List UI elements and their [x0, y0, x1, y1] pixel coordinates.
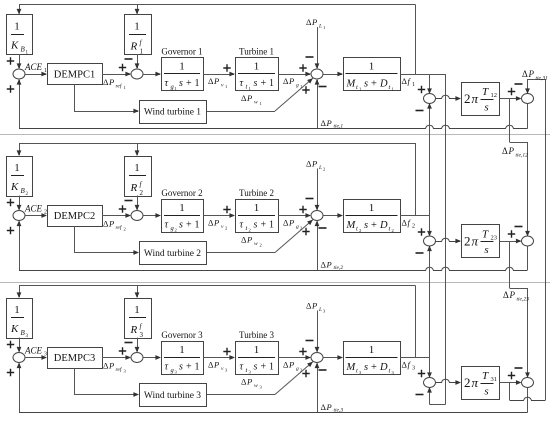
wire turbine to generator sum 3 — [278, 357, 310, 359]
sum junction generator 1 — [311, 69, 323, 79]
svg-text:D: D — [379, 79, 388, 90]
block wind turbine 2 — [140, 242, 207, 265]
wire tie-line feedback into ACE sum area 1 — [19, 80, 21, 129]
wire 2piT31/s output to tie sum — [500, 382, 521, 384]
svg-text:Turbine 3: Turbine 3 — [239, 330, 274, 340]
svg-text:t: t — [356, 226, 358, 233]
wire 1/K output into sum area 3 — [19, 338, 21, 352]
svg-text:+: + — [261, 78, 267, 89]
minus sign tie sum bottom 2 — [416, 252, 424, 254]
svg-text:P: P — [246, 377, 252, 387]
plus sign at ACE sum top input area 1 — [7, 57, 14, 64]
wire tie-line feedback line area 2 — [19, 267, 528, 270]
minus sign final sum top 1 — [515, 83, 523, 85]
svg-text:3: 3 — [124, 369, 127, 374]
sum junction before governor area 2 — [131, 211, 143, 221]
wire governor to turbine 2 — [203, 215, 234, 217]
svg-text:DEMPC3: DEMPC3 — [54, 353, 95, 364]
svg-text:1: 1 — [225, 84, 227, 89]
wire ACE sum to DEMPC2 — [25, 215, 46, 217]
block turbine 3 — [236, 342, 279, 375]
svg-text:DEMPC2: DEMPC2 — [54, 211, 95, 222]
svg-text:f: f — [408, 76, 412, 86]
wire top feedback line area 3 — [19, 285, 416, 287]
svg-text:K: K — [10, 323, 19, 335]
svg-text:R: R — [130, 41, 138, 53]
wire tie-line feedback into generator sum 1 — [317, 80, 319, 129]
svg-text:t: t — [389, 84, 391, 91]
svg-text:1: 1 — [175, 86, 177, 91]
block DEMPC1 — [48, 64, 103, 85]
svg-text:31: 31 — [491, 376, 498, 383]
svg-text:s: s — [254, 78, 258, 89]
svg-text:DEMPC1: DEMPC1 — [54, 70, 95, 81]
wire top feedback line area 1 — [19, 4, 416, 6]
block 2piT12/s — [462, 83, 500, 116]
wire tie-line feedback line area 1 — [19, 125, 528, 128]
svg-text:v: v — [221, 83, 224, 89]
block inertia 1/(M2s+D2) — [344, 200, 401, 233]
svg-text:τ: τ — [240, 78, 244, 89]
svg-text:Δ: Δ — [522, 69, 528, 79]
minus sign at load input 2 — [306, 198, 314, 200]
wire drop into 1/K block area 2 — [19, 143, 21, 155]
svg-text:1: 1 — [195, 220, 200, 231]
svg-text:2: 2 — [464, 234, 471, 249]
wire df into tie sum 3 top — [429, 358, 431, 378]
block turbine 2 — [236, 200, 279, 233]
wire drop into 1/R block area 2 — [137, 143, 139, 155]
plus sign at governor sum left input area 1 — [119, 64, 126, 71]
wire tie sum 2 to 2pi block — [436, 238, 461, 241]
plus sign at turbine input area 3 — [223, 348, 230, 355]
svg-text:3: 3 — [140, 331, 144, 339]
wire final sum 1 output down — [527, 104, 529, 129]
block turbine 1 — [236, 58, 279, 91]
wire dP_tie,12 branch to area 2 — [509, 99, 511, 143]
wire frequency feedback riser area 2 — [415, 143, 417, 216]
svg-text:2: 2 — [359, 228, 361, 233]
svg-text:1: 1 — [369, 61, 375, 73]
wire load disturbance dP_L2 into sum — [317, 169, 319, 210]
svg-text:1: 1 — [249, 86, 251, 91]
minus sign tie sum bottom 1 — [416, 110, 424, 112]
svg-text:+: + — [186, 78, 192, 89]
wire tie sum 3 to 2pi block — [436, 379, 461, 382]
plus sign at ACE sum bottom input area 3 — [7, 369, 14, 376]
plus sign generator sum left input 1 — [299, 64, 306, 71]
wire sum to governor 1 — [143, 74, 160, 76]
wire sum to governor 2 — [143, 215, 160, 217]
svg-text:tie,12: tie,12 — [516, 153, 529, 159]
minus sign at load input 1 — [306, 56, 314, 58]
svg-text:D: D — [379, 362, 388, 373]
wire df1 long column down to area 3 — [445, 74, 447, 405]
wire 1/R output into governor sum area 1 — [137, 54, 139, 68]
wire 2piT12/s output to tie sum — [500, 98, 521, 100]
wire 2piT23/s output to tie sum — [500, 241, 521, 243]
wire generator sum to inertia block 1 — [323, 74, 342, 76]
wire DEMPC2 to governor sum — [102, 215, 130, 217]
svg-text:K: K — [10, 181, 19, 193]
svg-text:1: 1 — [323, 25, 325, 30]
wire DEMPC2 branch to wind turbine — [74, 226, 76, 253]
svg-text:t: t — [356, 368, 358, 375]
wire 1/R output into governor sum area 2 — [137, 196, 139, 210]
svg-text:1: 1 — [269, 78, 274, 89]
wire wind turbine 2 output — [206, 252, 275, 254]
sum junction tie-line net 2 — [522, 236, 534, 246]
svg-text:t: t — [246, 367, 248, 374]
svg-text:2: 2 — [260, 243, 262, 248]
svg-text:+: + — [186, 220, 192, 231]
plus sign final sum left 1 — [508, 88, 515, 95]
wire load disturbance dP_L1 into sum — [317, 27, 319, 68]
block 1/R3^f area 3 — [125, 299, 152, 339]
wire 1/K output into sum area 1 — [19, 54, 21, 68]
block inertia 1/(M3s+D3) — [344, 342, 401, 375]
svg-text:ref: ref — [116, 83, 123, 90]
svg-text:12: 12 — [491, 92, 498, 99]
plus sign at ACE sum top input area 3 — [7, 341, 14, 348]
separator line between area 1 and area 2 — [0, 134, 550, 136]
svg-text:Δ: Δ — [502, 146, 508, 156]
minus sign tie feedback 2 — [319, 227, 327, 229]
svg-text:t: t — [246, 84, 248, 91]
wire dP_tie,23 branch to area 3 — [509, 241, 511, 288]
svg-text:Governor 3: Governor 3 — [161, 330, 203, 340]
svg-text:g: g — [296, 83, 299, 89]
sum junction tie-line net 1 — [522, 94, 534, 104]
sum junction generator 2 — [311, 211, 323, 221]
svg-text:+: + — [371, 79, 377, 90]
svg-text:1: 1 — [254, 344, 260, 356]
svg-text:M: M — [346, 79, 357, 90]
block 1/K_B1 area 1 — [7, 15, 33, 55]
svg-text:+: + — [371, 220, 377, 231]
svg-text:L: L — [318, 165, 322, 171]
minus sign final sum top 2 — [515, 226, 523, 228]
svg-text:3: 3 — [225, 368, 228, 373]
svg-text:s: s — [484, 244, 488, 256]
svg-text:M: M — [346, 220, 357, 231]
svg-text:1: 1 — [14, 162, 20, 174]
sum junction before governor area 1 — [131, 69, 143, 79]
block 1/K_B2 area 2 — [7, 157, 33, 197]
svg-text:s: s — [364, 362, 368, 373]
svg-text:P: P — [311, 301, 317, 311]
svg-text:1: 1 — [14, 304, 20, 316]
wire tie-line feedback into ACE sum area 3 — [19, 364, 21, 413]
svg-text:s: s — [254, 362, 258, 373]
svg-text:s: s — [254, 220, 258, 231]
block 1/R1^f area 1 — [125, 15, 152, 55]
wire df3 riser to area 2 tie sum — [429, 247, 431, 358]
svg-text:Turbine 1: Turbine 1 — [239, 47, 274, 57]
svg-text:2: 2 — [464, 375, 471, 390]
svg-text:ref: ref — [116, 224, 123, 231]
plus sign final sum left 3 — [508, 372, 515, 379]
minus sign final sum top 3 — [515, 367, 523, 369]
wire dP_tie,31 branch to area 1 — [509, 383, 511, 401]
svg-text:1: 1 — [179, 202, 185, 214]
sum junction tie-line net 3 — [522, 378, 534, 388]
svg-text:τ: τ — [240, 362, 244, 373]
plus sign at turbine input area 2 — [223, 206, 230, 213]
plus sign at ACE sum bottom input area 1 — [7, 85, 14, 92]
sum junction generator 3 — [311, 353, 323, 363]
svg-text:P: P — [509, 290, 516, 300]
wire sum to governor 3 — [143, 357, 160, 359]
svg-text:1: 1 — [195, 362, 200, 373]
svg-text:P: P — [213, 76, 219, 86]
svg-text:2: 2 — [392, 228, 394, 233]
minus sign tie feedback 3 — [319, 369, 327, 371]
svg-text:1: 1 — [14, 21, 20, 33]
svg-text:Wind turbine 2: Wind turbine 2 — [144, 249, 201, 259]
svg-text:g: g — [296, 224, 299, 230]
wire frequency feedback riser area 3 — [415, 286, 417, 358]
svg-text:P: P — [108, 361, 114, 371]
svg-text:2: 2 — [225, 226, 227, 231]
wire df into tie sum 1 top — [429, 74, 431, 93]
svg-text:1: 1 — [134, 162, 140, 174]
wire tie-line feedback into generator sum 2 — [317, 222, 319, 271]
svg-text:2: 2 — [464, 91, 471, 106]
separator line between area 2 and area 3 — [0, 282, 550, 284]
svg-text:1: 1 — [369, 202, 375, 214]
svg-text:t: t — [389, 368, 391, 375]
wire final sum 2 output down — [527, 246, 529, 270]
svg-text:1: 1 — [260, 101, 262, 106]
wire governor to turbine 1 — [203, 74, 234, 76]
block governor 3 — [162, 342, 204, 375]
block 1/R2^f area 2 — [125, 157, 152, 197]
wire tie-line feedback line area 3 — [19, 412, 528, 414]
svg-text:P: P — [288, 218, 294, 228]
wire generator sum to inertia block 3 — [323, 357, 342, 359]
minus sign tie feedback 1 — [319, 86, 327, 88]
svg-text:τ: τ — [165, 362, 169, 373]
wire df2 from inertia block — [400, 215, 430, 217]
wire DEMPC3 to governor sum — [102, 357, 130, 359]
svg-text:T: T — [482, 86, 489, 98]
block inertia 1/(M1s+D1) — [344, 58, 401, 91]
wire drop into 1/K block area 1 — [19, 5, 21, 14]
svg-text:1: 1 — [269, 362, 274, 373]
block DEMPC3 — [48, 348, 103, 369]
svg-text:P: P — [213, 218, 219, 228]
minus sign at governor sum top input area 2 — [125, 200, 133, 202]
svg-text:s: s — [364, 220, 368, 231]
sum junction ACE area 3 — [13, 353, 25, 363]
svg-text:τ: τ — [165, 220, 169, 231]
minus sign at load input 3 — [306, 340, 314, 342]
svg-text:Wind turbine 1: Wind turbine 1 — [144, 108, 201, 118]
block 1/K_B3 area 3 — [7, 299, 33, 339]
svg-text:2: 2 — [249, 228, 251, 233]
sum junction frequency difference 2 — [424, 236, 436, 246]
svg-text:L: L — [318, 307, 322, 313]
svg-text:π: π — [472, 375, 479, 390]
svg-text:P: P — [108, 219, 114, 229]
wire DEMPC1 to governor sum — [102, 74, 130, 76]
wire df1 from inertia block — [400, 74, 446, 76]
svg-text:+: + — [186, 362, 192, 373]
svg-text:tie,23: tie,23 — [517, 297, 530, 303]
svg-text:π: π — [472, 91, 479, 106]
svg-text:s: s — [364, 79, 368, 90]
plus sign tie sum top 3 — [418, 370, 425, 377]
wire tie-line feedback into generator sum 3 — [317, 364, 319, 413]
plus sign tie sum top 1 — [418, 86, 425, 93]
svg-text:1: 1 — [359, 87, 361, 92]
svg-text:w: w — [254, 241, 258, 247]
minus sign at governor sum top input area 1 — [125, 58, 133, 60]
wire ACE sum to DEMPC3 — [25, 357, 46, 359]
svg-text:1: 1 — [254, 202, 260, 214]
minus sign tie sum bottom 3 — [416, 394, 424, 396]
svg-text:ACE: ACE — [24, 346, 43, 356]
svg-text:P: P — [528, 69, 535, 79]
wire turbine to generator sum 2 — [278, 215, 310, 217]
wire drop into 1/R block area 1 — [137, 5, 139, 14]
svg-text:w: w — [254, 383, 258, 389]
sum junction before governor area 3 — [131, 353, 143, 363]
svg-text:ACE: ACE — [24, 62, 43, 72]
svg-text:s: s — [179, 220, 183, 231]
svg-text:P: P — [246, 93, 252, 103]
svg-text:1: 1 — [412, 82, 415, 88]
svg-text:1: 1 — [140, 48, 144, 56]
wire 1/R output into governor sum area 3 — [137, 338, 139, 352]
wire tie sum 1 to 2pi block — [436, 95, 461, 98]
block DEMPC2 — [48, 206, 103, 227]
svg-text:P: P — [213, 360, 219, 370]
block governor 1 — [162, 58, 204, 91]
block 2piT23/s — [462, 225, 500, 258]
wire top feedback line area 2 — [19, 143, 416, 145]
svg-text:2: 2 — [124, 227, 126, 232]
plus sign at governor sum left input area 3 — [119, 347, 126, 354]
wire final sum 3 output down — [527, 388, 529, 413]
plus sign wind input 3 — [302, 370, 309, 377]
svg-text:1: 1 — [195, 78, 200, 89]
wire df2 riser to area 1 tie sum — [429, 104, 431, 216]
svg-text:2: 2 — [323, 167, 325, 172]
svg-text:f: f — [408, 218, 412, 228]
wire wind turbine 3 output — [206, 394, 275, 396]
plus sign wind input 1 — [302, 86, 309, 93]
block wind turbine 3 — [140, 384, 207, 407]
wire governor to turbine 3 — [203, 357, 234, 359]
svg-text:3: 3 — [260, 385, 263, 390]
sum junction frequency difference 1 — [424, 94, 436, 104]
svg-text:f: f — [408, 360, 412, 370]
wire turbine to generator sum 1 — [278, 74, 310, 76]
wire generator sum to inertia block 2 — [323, 215, 342, 217]
svg-text:tie,31: tie,31 — [536, 76, 549, 82]
svg-text:M: M — [346, 362, 357, 373]
wire DEMPC1 branch to wind turbine — [74, 85, 76, 112]
svg-text:s: s — [179, 362, 183, 373]
svg-text:T: T — [482, 370, 489, 382]
plus sign final sum left 2 — [508, 230, 515, 237]
svg-text:P: P — [246, 235, 252, 245]
wire DEMPC3 branch to wind turbine — [74, 368, 76, 395]
wire drop into 1/R block area 3 — [137, 286, 139, 298]
wire ACE sum to DEMPC1 — [25, 74, 46, 76]
svg-text:+: + — [261, 362, 267, 373]
svg-text:L: L — [318, 24, 322, 30]
svg-text:2: 2 — [412, 224, 415, 230]
wire 1/K output into sum area 2 — [19, 196, 21, 210]
svg-text:P: P — [326, 402, 332, 412]
svg-text:+: + — [371, 362, 377, 373]
plus sign generator sum left input 2 — [299, 206, 306, 213]
svg-text:Wind turbine 3: Wind turbine 3 — [144, 391, 201, 401]
svg-text:τ: τ — [165, 78, 169, 89]
svg-text:R: R — [130, 324, 138, 336]
svg-text:1: 1 — [269, 220, 274, 231]
svg-text:ACE: ACE — [24, 204, 43, 214]
plus sign tie sum top 2 — [418, 228, 425, 235]
wire drop into 1/K block area 3 — [19, 286, 21, 298]
wire wind turbine 1 output — [206, 111, 275, 113]
plus sign at ACE sum top input area 2 — [7, 199, 14, 206]
svg-text:D: D — [379, 220, 388, 231]
svg-text:τ: τ — [240, 220, 244, 231]
svg-text:s: s — [484, 386, 488, 398]
svg-text:2: 2 — [140, 189, 144, 197]
svg-text:1: 1 — [124, 85, 126, 90]
svg-text:t: t — [356, 84, 358, 91]
svg-text:g: g — [296, 366, 299, 372]
svg-text:P: P — [326, 260, 332, 270]
svg-text:23: 23 — [491, 235, 498, 242]
svg-text:P: P — [108, 77, 114, 87]
svg-text:R: R — [130, 182, 138, 194]
minus sign at governor sum top input area 3 — [125, 342, 133, 344]
svg-text:Δ: Δ — [503, 290, 509, 300]
wire df3 from inertia block — [400, 357, 430, 359]
svg-text:t: t — [246, 225, 248, 232]
wire tie-line feedback into ACE sum area 2 — [19, 222, 21, 271]
wire load disturbance dP_L3 into sum — [317, 311, 319, 352]
svg-text:1: 1 — [179, 61, 185, 73]
svg-text:t: t — [389, 226, 391, 233]
sum junction frequency difference 3 — [424, 378, 436, 388]
sum junction ACE area 1 — [13, 69, 25, 79]
svg-text:3: 3 — [412, 366, 415, 372]
svg-text:1: 1 — [134, 304, 140, 316]
svg-text:Turbine 2: Turbine 2 — [239, 188, 274, 198]
plus sign wind input 2 — [302, 228, 309, 235]
wire frequency feedback riser area 1 — [415, 5, 417, 75]
svg-text:w: w — [254, 100, 258, 106]
svg-text:Governor 1: Governor 1 — [161, 47, 202, 57]
svg-text:P: P — [508, 146, 515, 156]
svg-text:s: s — [179, 78, 183, 89]
svg-text:P: P — [288, 76, 294, 86]
plus sign at turbine input area 1 — [223, 64, 230, 71]
svg-text:v: v — [221, 224, 224, 230]
svg-text:K: K — [10, 40, 19, 52]
block 2piT31/s — [462, 367, 500, 400]
svg-text:P: P — [326, 118, 332, 128]
svg-text:1: 1 — [179, 344, 185, 356]
svg-text:1: 1 — [369, 344, 375, 356]
